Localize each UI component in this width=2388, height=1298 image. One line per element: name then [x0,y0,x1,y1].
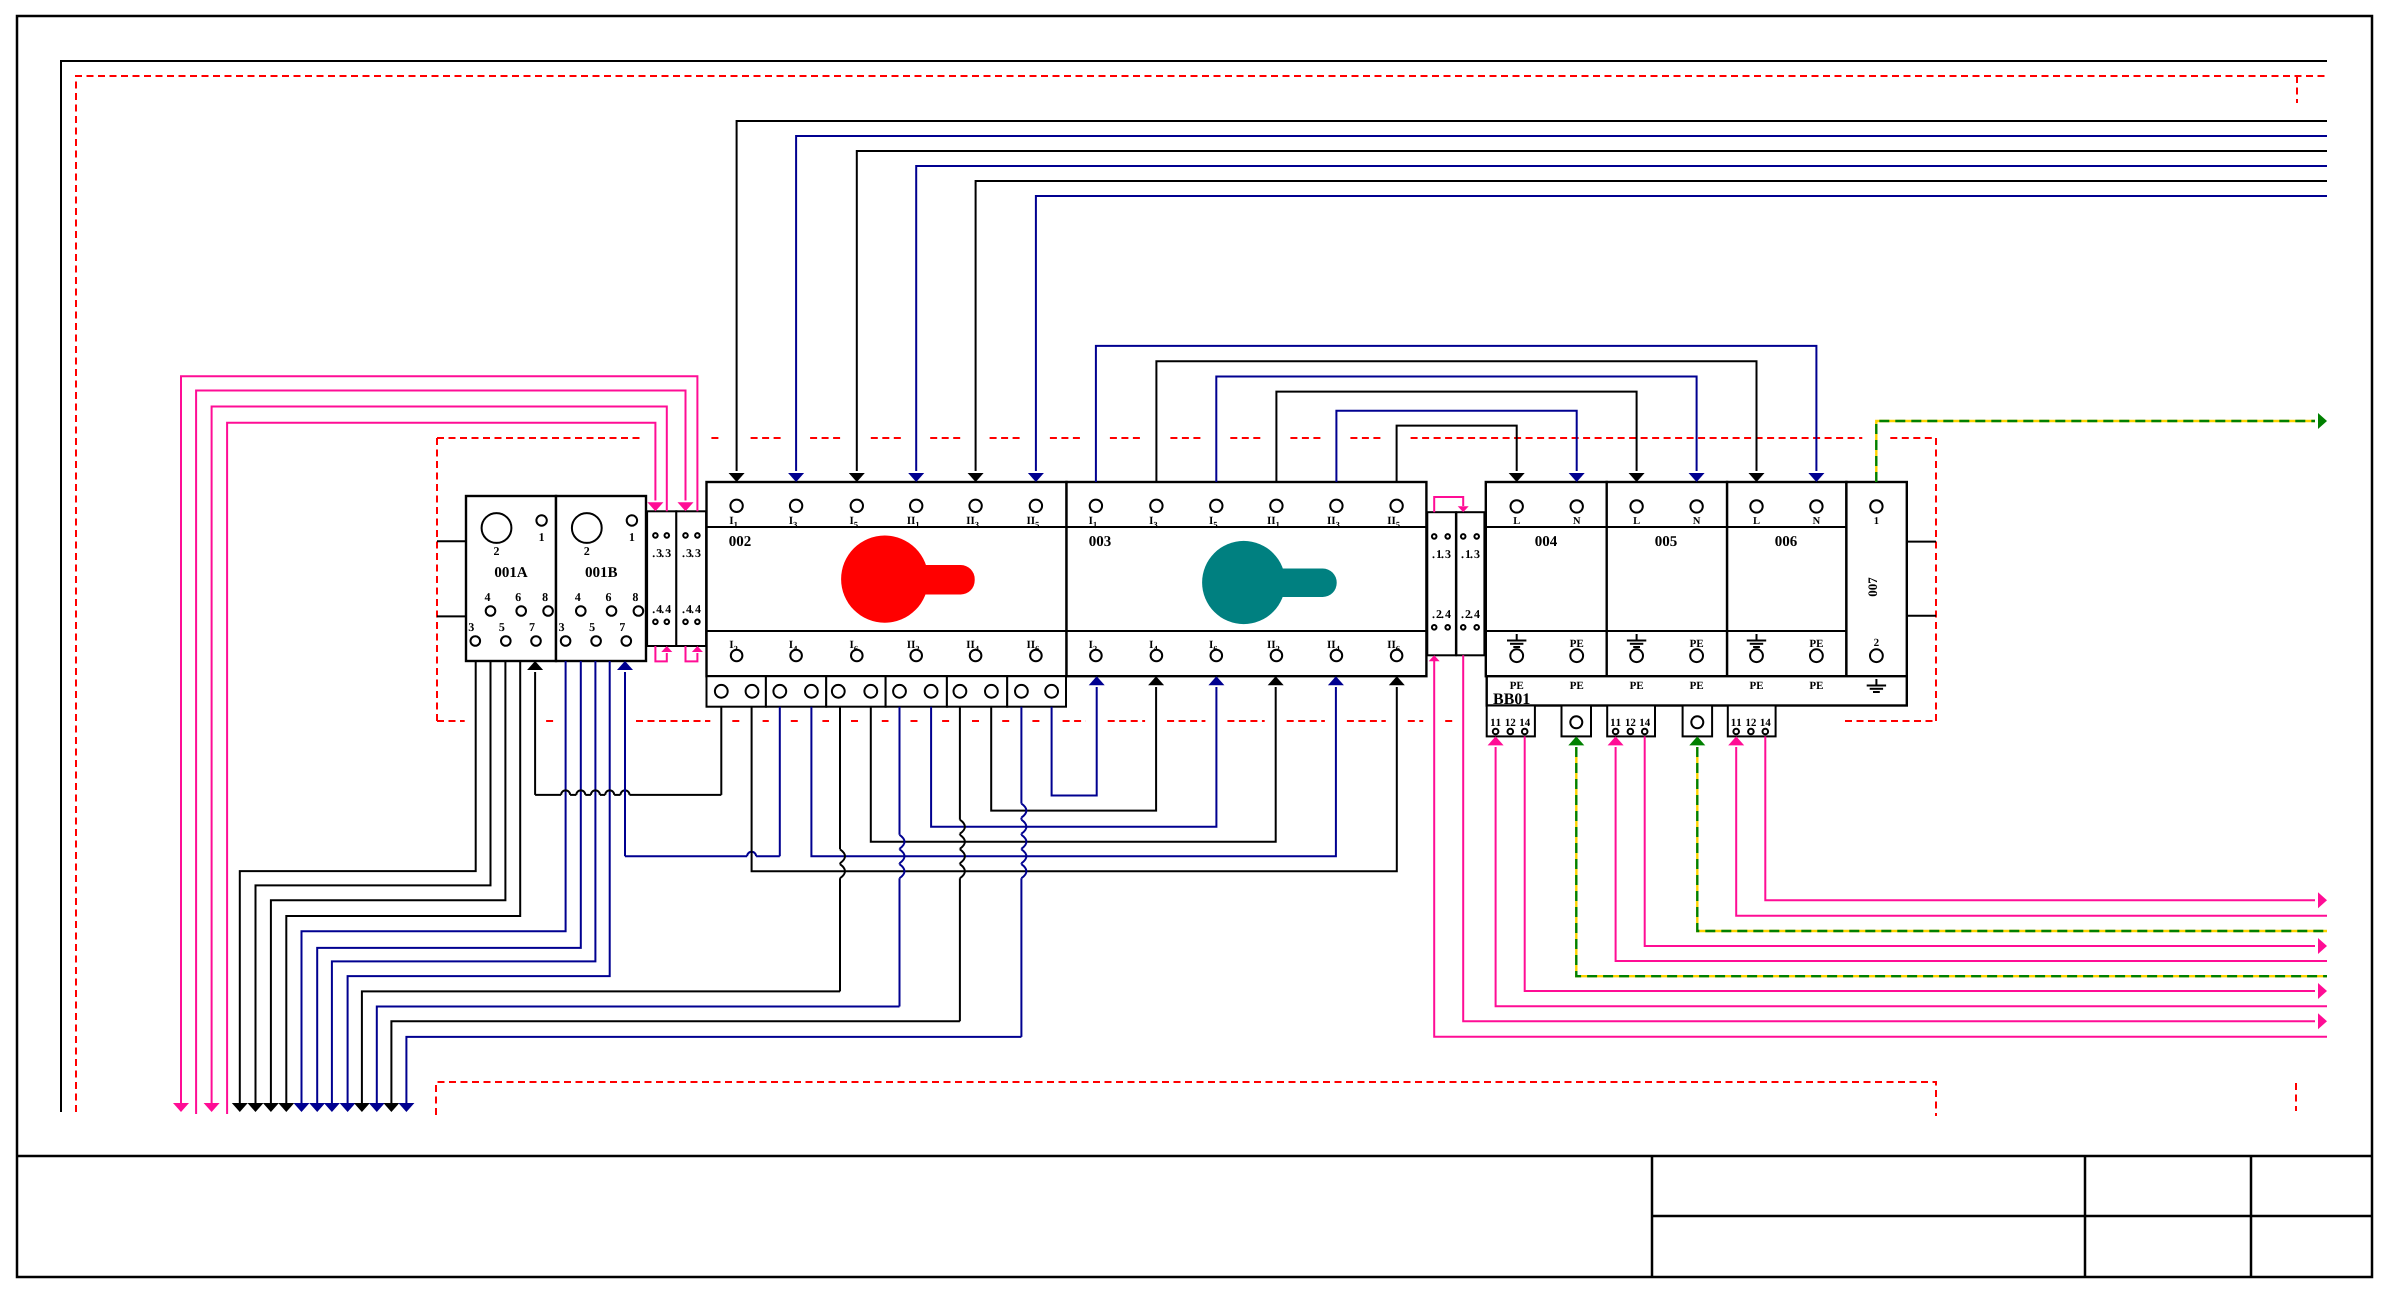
wire relay 1 [1765,736,2315,900]
enclosure wall bottom [436,1082,1936,1116]
wire stub 001A left upper [437,540,466,542]
strip jumper left 1 [655,646,666,661]
wire outgoing 5 [302,661,566,1104]
wire relay 5 [1616,747,2327,961]
wire control 3 [212,407,667,1105]
wire stub 007 right upper [1907,541,1936,543]
wire cell5R to 003 [991,687,1156,811]
wire stub 007 right lower [1907,615,1936,617]
enclosure wall mid left [436,438,438,721]
connector 001A [466,496,556,661]
connector 001B [556,496,646,661]
enclosure wall stub top right [2296,76,2298,103]
switch block 002 [707,482,1067,676]
wire relay 6 [1576,747,2327,976]
wire relay 2 [1736,747,2327,916]
PE bus bar BB01 [1487,676,1907,705]
title block [17,1155,2372,1158]
wire control 2 [196,391,685,1115]
wire bus L2 [796,136,2327,471]
wire outgoing 2 [256,661,491,1104]
PSU block 005 [1607,482,1727,676]
wire outgoing 6 [317,661,581,1104]
wire 001B.7 to strip cell2 [624,672,626,856]
wire relay 3 [1697,747,2327,931]
wire PE bus loop [61,61,2327,1112]
switch knob 003 (teal) [1244,569,1337,598]
wire 003 feed 3 [1216,377,1696,483]
wire bus L6 [1036,196,2327,471]
wire relay 4 [1645,736,2315,946]
terminal strip X3 left [647,511,676,646]
wire cell6L to bottom [1020,707,1022,804]
wire stub 001A left lower [437,615,466,617]
wire cell3L to bottom [839,707,841,850]
terminal strip X1 mid [1427,512,1456,655]
wire 003 feed 5 [1336,411,1576,482]
wire cell6R to 003 [1052,687,1097,796]
wire cell4R to 003 [931,687,1216,827]
wire outgoing 7 [332,661,596,1104]
wire cell2R to 003 [811,687,1336,856]
wire relay 8 [1496,747,2327,1006]
terminal strip under 002 [707,676,766,707]
block 007 [1846,482,1906,676]
wire bus L3 [857,151,2327,471]
wire outgoing 3 [271,661,506,1104]
PSU block 006 [1727,482,1846,676]
wire bus L1 [737,121,2327,471]
relay terminal cells [1487,706,1535,737]
wire bus L5 [976,181,2327,471]
enclosure wall mid bottom [437,720,465,722]
wire strip mid 2 out [1463,655,2315,1021]
wire strip mid 1 out [1434,661,2327,1037]
wire cell4L to bottom [899,707,901,835]
enclosure wall mid top [437,437,641,439]
wire outgoing 1 [240,661,476,1104]
wire 003 feed 4 [1276,392,1636,482]
enclosure wall mid right [1935,438,1937,721]
PSU block 004 [1486,482,1607,676]
wire control 1 [181,376,697,1104]
enclosure wall outer red dashed [76,76,2325,1112]
wire cell5L to bottom [959,707,961,820]
wire 001A.7 to strip cell1 [534,672,536,795]
strip jumper left 2 [686,646,698,661]
wire outgoing 4 [286,661,520,1104]
wire control 4 [227,423,655,1114]
wire cell1R to 003 [752,687,1397,871]
switch knob 002 (red) [885,565,975,595]
wire bus L4 [916,166,2327,471]
wire cell3R to 003 [871,687,1276,842]
wire relay 7 [1525,736,2315,991]
strip jumper mid [1434,497,1463,512]
wire PE green to 007 [1876,421,2315,482]
terminal strip X2 mid [1456,512,1484,655]
terminal strip X4 left [676,511,706,646]
wire 003 feed 1 [1096,346,1817,482]
wire outgoing 8 [348,661,610,1104]
wire 003 feed 2 [1156,361,1756,482]
enclosure wall stub bottom right [2295,1083,2297,1111]
switch block 003 [1067,482,1427,676]
wire 003 feed 6 [1397,426,1517,482]
